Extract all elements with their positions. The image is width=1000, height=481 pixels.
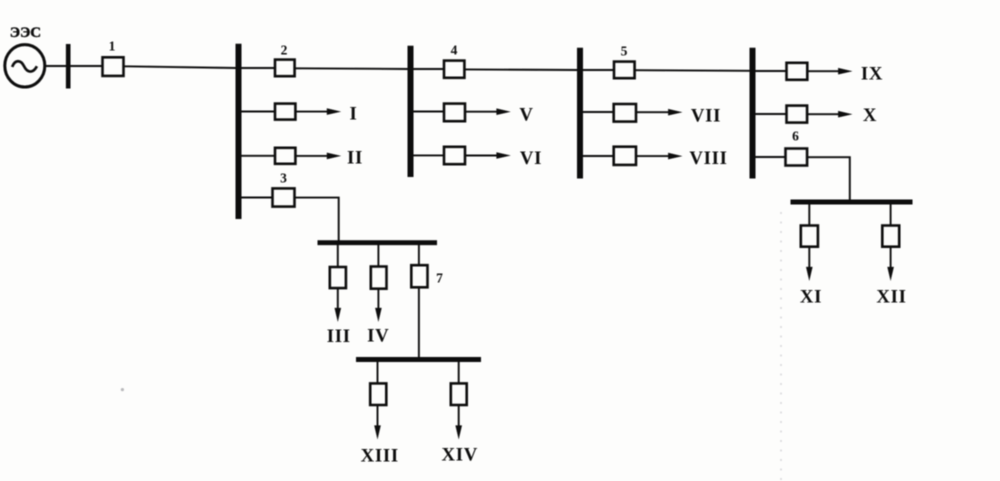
svg-text:1: 1 xyxy=(109,39,116,54)
scan artifact: faint speck xyxy=(121,388,124,391)
feeder III: drop wire xyxy=(337,245,339,267)
svg-text:VII: VII xyxy=(691,105,721,126)
breaker 3 xyxy=(273,188,295,206)
arrow to III xyxy=(337,288,339,310)
svg-text:ЭЭС: ЭЭС xyxy=(10,25,41,41)
arrow to XIV xyxy=(458,405,460,428)
wire breaker 4 to bus C xyxy=(464,68,577,71)
wire bus B to breaker 4 xyxy=(414,68,445,70)
svg-text:III: III xyxy=(327,326,351,347)
breaker (feeder IV) xyxy=(371,267,387,289)
arrow to I xyxy=(295,111,329,113)
svg-text:X: X xyxy=(863,105,877,126)
bus B xyxy=(408,46,414,177)
breaker (feeder V) xyxy=(444,104,465,122)
breaker 1 xyxy=(103,57,124,76)
arrow to XIII xyxy=(377,405,379,428)
feeder V: wire bus B to breaker xyxy=(414,111,445,113)
arrow to IX xyxy=(807,70,840,72)
svg-text:5: 5 xyxy=(621,44,628,59)
breaker (feeder III) xyxy=(330,267,346,288)
scan artifact: faint dotted fold line xyxy=(780,212,782,481)
bus C xyxy=(577,48,583,179)
bus E xyxy=(791,200,913,205)
breaker (feeder XI) xyxy=(801,226,818,247)
breaker (feeder VIII) xyxy=(614,147,636,165)
arrow to VII xyxy=(636,111,670,113)
breaker 4 xyxy=(444,61,464,78)
feeder IV: drop wire xyxy=(377,245,379,267)
breaker (feeder XIV) xyxy=(451,383,467,405)
wire breaker 1 to bus A xyxy=(124,66,236,68)
wire bus A to breaker 2 xyxy=(242,67,276,69)
wire bus S to breaker 1 xyxy=(71,65,103,67)
svg-text:3: 3 xyxy=(280,171,287,186)
feeder XIII: drop wire xyxy=(377,362,379,383)
breaker (feeder II) xyxy=(275,148,295,164)
svg-text:VI: VI xyxy=(520,148,542,169)
breaker (feeder I) xyxy=(275,104,295,120)
arrow to XI xyxy=(808,247,810,269)
breaker (feeder VII) xyxy=(614,104,636,122)
bus D xyxy=(750,48,756,179)
arrow to VI xyxy=(465,155,499,157)
svg-text:XIV: XIV xyxy=(442,445,479,466)
drop wire bus F to breaker 7 xyxy=(418,245,420,265)
wire bus A to breaker 3 xyxy=(242,197,273,199)
arrow to V xyxy=(465,111,499,113)
svg-text:XII: XII xyxy=(876,287,906,308)
svg-text:2: 2 xyxy=(281,43,288,58)
arrow to X xyxy=(807,113,840,115)
wire breaker 6 elbow down to bus E xyxy=(807,157,850,200)
svg-text:XI: XI xyxy=(800,287,822,308)
breaker 6 xyxy=(786,149,808,166)
svg-text:VIII: VIII xyxy=(689,148,727,169)
bus A xyxy=(236,44,242,219)
arrow to IV xyxy=(377,289,379,311)
feeder VIII: wire bus C to breaker xyxy=(583,155,614,157)
wire bus C to breaker 5 xyxy=(583,69,614,71)
wire breaker 3 elbow down to bus F xyxy=(295,198,339,241)
wire bus D to breaker 6 xyxy=(756,156,786,158)
breaker (feeder IX) xyxy=(787,63,808,80)
arrow to VIII xyxy=(636,155,670,157)
feeder XI: drop wire xyxy=(808,205,810,226)
feeder VII: wire bus C to breaker xyxy=(583,111,614,113)
svg-text:7: 7 xyxy=(436,271,443,286)
feeder VI: wire bus B to breaker xyxy=(414,154,445,156)
feeder IX: wire bus D to breaker xyxy=(756,70,787,72)
svg-text:IX: IX xyxy=(861,63,883,84)
arrow to XII xyxy=(890,247,892,269)
breaker 2 xyxy=(275,60,295,77)
feeder XIV: drop wire xyxy=(458,362,460,383)
svg-text:II: II xyxy=(347,147,363,168)
breaker (feeder XII) xyxy=(882,226,899,247)
breaker (feeder XIII) xyxy=(370,383,386,405)
bus G xyxy=(356,357,481,362)
bus S (short source busbar) xyxy=(66,44,71,89)
breaker 7 xyxy=(411,265,427,287)
breaker (feeder VI) xyxy=(444,147,465,164)
feeder II: wire bus A to breaker xyxy=(242,155,276,157)
svg-text:XIII: XIII xyxy=(361,446,399,467)
svg-text:V: V xyxy=(519,104,533,125)
feeder I: wire bus A to breaker xyxy=(242,111,276,113)
generator U1 (ЭЭС source) xyxy=(5,45,45,87)
wire breaker 2 to bus B xyxy=(295,67,408,70)
feeder XII: drop wire xyxy=(890,205,892,226)
feeder X: wire bus D to breaker xyxy=(756,113,787,115)
bus F xyxy=(318,240,438,245)
wire breaker 7 down to bus G xyxy=(418,287,420,357)
svg-text:IV: IV xyxy=(367,326,389,347)
svg-text:4: 4 xyxy=(451,43,458,58)
wire breaker 5 to bus D xyxy=(635,69,750,72)
breaker 5 xyxy=(614,62,635,79)
arrow to II xyxy=(295,155,329,157)
wire generator to bus S xyxy=(45,65,66,67)
breaker (feeder X) xyxy=(787,106,808,123)
svg-text:6: 6 xyxy=(792,129,799,144)
svg-text:I: I xyxy=(349,104,357,125)
